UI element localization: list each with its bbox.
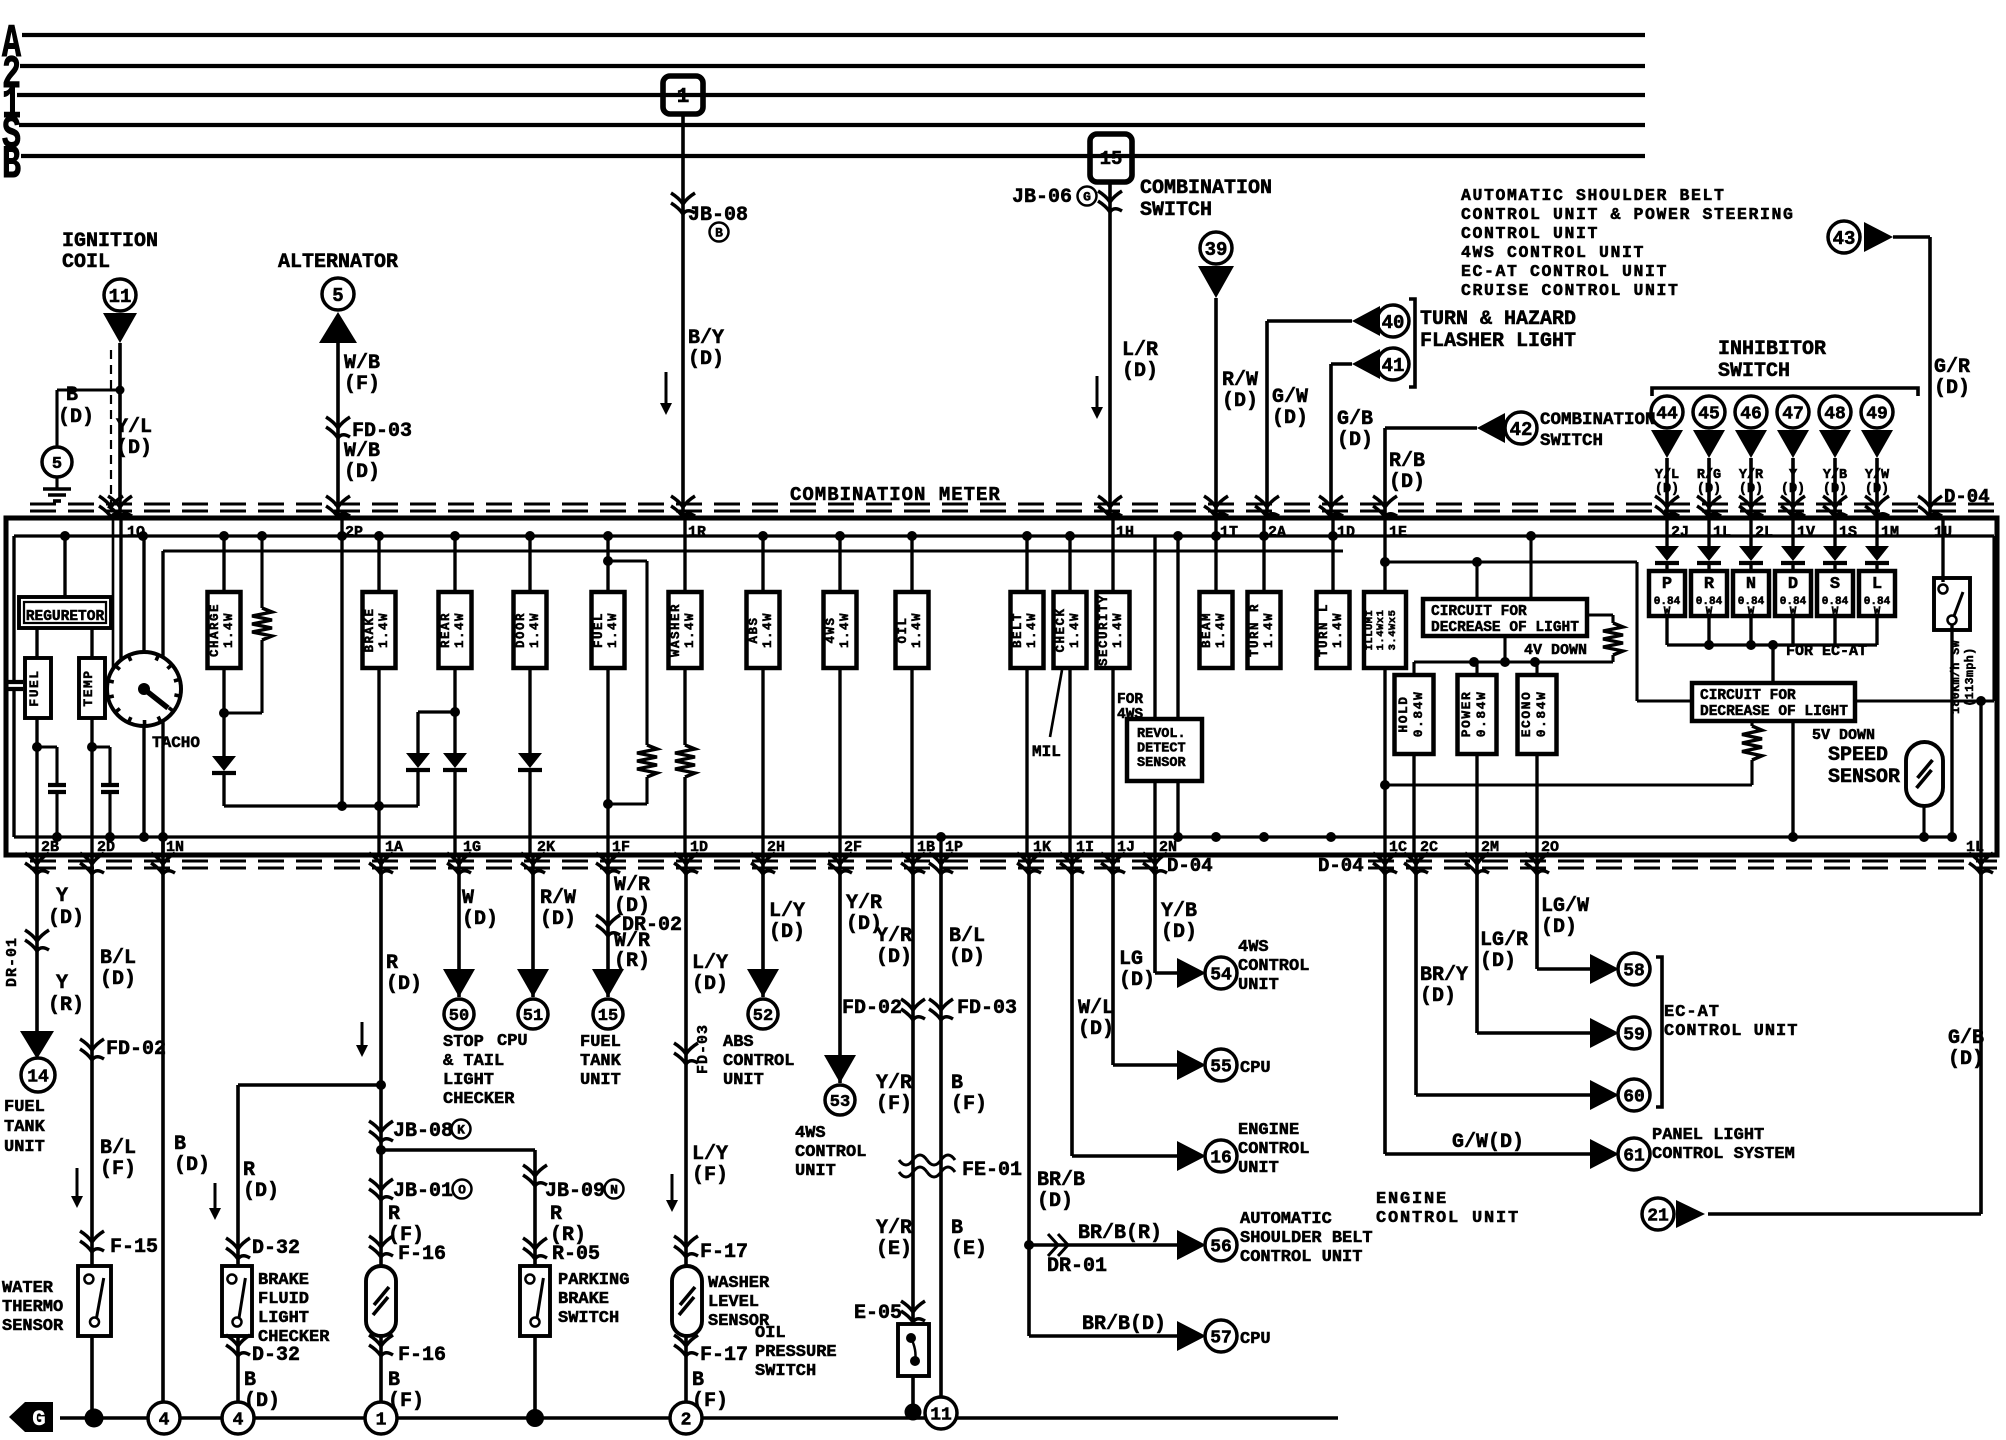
svg-text:1A: 1A: [385, 839, 403, 856]
svg-text:SHOULDER BELT: SHOULDER BELT: [1240, 1229, 1373, 1248]
svg-text:S: S: [1830, 575, 1840, 594]
svg-text:1.4W: 1.4W: [606, 612, 620, 648]
svg-text:UNIT: UNIT: [4, 1138, 45, 1157]
svg-text:16: 16: [1210, 1148, 1232, 1168]
svg-text:1V: 1V: [1797, 524, 1815, 541]
svg-text:HOLD: HOLD: [1396, 695, 1411, 732]
svg-text:1G: 1G: [463, 839, 481, 856]
svg-text:1.4W: 1.4W: [910, 612, 924, 648]
svg-text:45: 45: [1698, 404, 1720, 424]
svg-text:2C: 2C: [1420, 839, 1438, 856]
svg-text:D-04: D-04: [1944, 486, 1990, 508]
svg-text:SENSOR: SENSOR: [1828, 766, 1900, 789]
svg-text:(D): (D): [1272, 407, 1308, 430]
svg-text:(D): (D): [174, 1154, 210, 1177]
svg-text:1P: 1P: [945, 839, 963, 856]
svg-text:Y/L: Y/L: [116, 416, 152, 439]
svg-text:Y: Y: [56, 885, 68, 908]
svg-text:L: L: [1872, 575, 1882, 594]
svg-text:B: B: [951, 1217, 963, 1240]
svg-text:TANK: TANK: [580, 1052, 622, 1071]
svg-text:4V DOWN: 4V DOWN: [1524, 642, 1587, 659]
svg-text:Y/R: Y/R: [846, 892, 882, 915]
svg-text:ENGINE: ENGINE: [1376, 1190, 1448, 1209]
svg-text:Y: Y: [1789, 468, 1798, 483]
svg-text:4WS: 4WS: [1238, 938, 1269, 957]
svg-text:F-17: F-17: [700, 1241, 748, 1264]
svg-text:D-32: D-32: [252, 1237, 300, 1260]
svg-text:(D): (D): [243, 1180, 279, 1203]
svg-text:REVOL.: REVOL.: [1137, 727, 1186, 742]
svg-text:1.4W: 1.4W: [1214, 612, 1228, 648]
svg-text:SECURITY: SECURITY: [1097, 594, 1111, 666]
svg-text:B/L: B/L: [949, 925, 985, 948]
svg-text:(D): (D): [1781, 482, 1805, 497]
svg-text:FUEL: FUEL: [4, 1098, 45, 1117]
svg-text:G: G: [1083, 190, 1091, 205]
svg-text:B: B: [2, 139, 21, 191]
svg-text:2N: 2N: [1159, 839, 1177, 856]
svg-text:(D): (D): [116, 437, 152, 460]
svg-text:R/G: R/G: [1697, 468, 1721, 483]
svg-text:O: O: [458, 1183, 466, 1198]
svg-text:W: W: [462, 887, 474, 910]
svg-text:BEAM: BEAM: [1200, 612, 1214, 648]
svg-text:Y: Y: [56, 972, 68, 995]
svg-text:R: R: [388, 1203, 400, 1226]
svg-text:BRAKE: BRAKE: [558, 1290, 609, 1309]
svg-text:CIRCUIT FOR: CIRCUIT FOR: [1700, 688, 1796, 704]
svg-text:D-04: D-04: [1167, 855, 1213, 877]
svg-text:ECONO: ECONO: [1519, 691, 1534, 738]
svg-text:1.4W: 1.4W: [1331, 612, 1345, 648]
svg-text:(F): (F): [100, 1158, 136, 1181]
svg-text:47: 47: [1782, 404, 1804, 424]
svg-text:4WS: 4WS: [824, 616, 838, 643]
svg-text:G/B: G/B: [1337, 408, 1373, 431]
svg-text:SWITCH: SWITCH: [558, 1309, 619, 1328]
svg-text:1.4W: 1.4W: [761, 612, 775, 648]
svg-text:(D): (D): [462, 908, 498, 931]
svg-text:(D): (D): [1122, 360, 1158, 383]
svg-text:1.4W: 1.4W: [453, 612, 467, 648]
svg-text:SENSOR: SENSOR: [2, 1317, 64, 1336]
svg-text:R-05: R-05: [552, 1243, 600, 1266]
svg-text:TURN & HAZARD: TURN & HAZARD: [1420, 308, 1576, 331]
svg-text:F-16: F-16: [398, 1344, 446, 1367]
svg-text:1T: 1T: [1220, 524, 1238, 541]
svg-text:WATER: WATER: [2, 1279, 54, 1298]
svg-text:2D: 2D: [97, 839, 115, 856]
svg-text:(D): (D): [386, 973, 422, 996]
svg-text:K: K: [457, 1123, 465, 1138]
svg-text:51: 51: [523, 1007, 543, 1026]
svg-text:(D): (D): [1161, 921, 1197, 944]
svg-text:TURN L: TURN L: [1317, 603, 1331, 657]
svg-text:CONTROL UNIT: CONTROL UNIT: [1664, 1022, 1798, 1041]
svg-text:UNIT: UNIT: [795, 1162, 836, 1181]
svg-text:UNIT: UNIT: [1238, 976, 1279, 995]
svg-text:LIGHT: LIGHT: [258, 1309, 309, 1328]
svg-text:(E): (E): [876, 1238, 912, 1261]
svg-text:1D: 1D: [690, 839, 708, 856]
svg-text:(D): (D): [1697, 482, 1721, 497]
svg-text:L/Y: L/Y: [692, 952, 728, 975]
svg-text:R: R: [550, 1203, 562, 1226]
svg-text:(D): (D): [100, 968, 136, 991]
svg-text:& TAIL: & TAIL: [443, 1052, 504, 1071]
svg-text:4: 4: [233, 1410, 244, 1430]
svg-text:1.4W: 1.4W: [683, 612, 697, 648]
svg-text:(D): (D): [692, 973, 728, 996]
svg-text:1.4W: 1.4W: [1111, 612, 1125, 648]
svg-text:E-05: E-05: [854, 1302, 902, 1325]
svg-text:OIL: OIL: [755, 1324, 786, 1343]
svg-text:(D): (D): [688, 348, 724, 371]
svg-text:CPU: CPU: [1240, 1330, 1271, 1349]
svg-text:CONTROL: CONTROL: [723, 1052, 794, 1071]
svg-text:B: B: [388, 1369, 400, 1392]
svg-text:FOR: FOR: [1117, 692, 1143, 708]
svg-text:PANEL LIGHT: PANEL LIGHT: [1652, 1126, 1764, 1145]
svg-text:(113mph): (113mph): [1964, 647, 1977, 706]
svg-text:LG/W: LG/W: [1541, 895, 1589, 918]
svg-text:B/Y: B/Y: [688, 327, 724, 350]
svg-text:B/L: B/L: [100, 1137, 136, 1160]
svg-text:UNIT: UNIT: [1238, 1159, 1279, 1178]
svg-text:REAR: REAR: [439, 612, 453, 648]
svg-text:(D): (D): [1480, 950, 1516, 973]
svg-text:Y/R: Y/R: [1739, 468, 1764, 483]
svg-text:N: N: [610, 1183, 618, 1198]
svg-text:MIL: MIL: [1032, 743, 1061, 761]
svg-text:AUTOMATIC: AUTOMATIC: [1240, 1210, 1332, 1229]
svg-text:Y/R: Y/R: [876, 925, 912, 948]
svg-text:(D): (D): [1948, 1048, 1984, 1071]
svg-text:39: 39: [1205, 239, 1228, 261]
svg-text:W/L: W/L: [1078, 997, 1114, 1020]
svg-text:55: 55: [1210, 1057, 1232, 1077]
svg-text:43: 43: [1833, 228, 1856, 250]
svg-text:(D): (D): [1823, 482, 1847, 497]
svg-text:TACHO: TACHO: [152, 734, 200, 752]
svg-text:(F): (F): [692, 1164, 728, 1187]
svg-text:58: 58: [1623, 961, 1645, 981]
svg-text:2: 2: [681, 1410, 692, 1430]
svg-text:4: 4: [159, 1410, 170, 1430]
svg-text:2P: 2P: [345, 524, 363, 541]
svg-text:41: 41: [1382, 355, 1405, 377]
svg-text:IGNITION: IGNITION: [62, 230, 158, 253]
svg-text:49: 49: [1866, 404, 1888, 424]
svg-text:ALTERNATOR: ALTERNATOR: [278, 251, 398, 274]
svg-text:11: 11: [930, 1405, 952, 1425]
svg-text:R: R: [243, 1159, 255, 1182]
svg-text:JB-08: JB-08: [393, 1120, 453, 1143]
svg-text:14: 14: [27, 1067, 49, 1087]
svg-text:THERMO: THERMO: [2, 1298, 63, 1317]
svg-text:(D): (D): [1655, 482, 1679, 497]
svg-text:DR-01: DR-01: [4, 937, 21, 987]
svg-text:1.4W: 1.4W: [222, 612, 236, 648]
svg-text:(D): (D): [1420, 985, 1456, 1008]
svg-text:(D): (D): [1037, 1190, 1073, 1213]
svg-text:EC-AT CONTROL UNIT: EC-AT CONTROL UNIT: [1461, 262, 1668, 281]
svg-text:(D): (D): [1541, 916, 1577, 939]
svg-text:(D): (D): [876, 946, 912, 969]
svg-text:FE-01: FE-01: [962, 1159, 1022, 1182]
svg-text:WASHER: WASHER: [708, 1274, 770, 1293]
svg-text:FD-02: FD-02: [842, 997, 902, 1020]
svg-text:3.4Wx5: 3.4Wx5: [1387, 610, 1399, 651]
svg-text:SENSOR: SENSOR: [1137, 756, 1187, 771]
svg-text:(D): (D): [1222, 390, 1258, 413]
svg-text:CONTROL UNIT: CONTROL UNIT: [1461, 224, 1599, 243]
svg-text:F-17: F-17: [700, 1344, 748, 1367]
svg-text:1M: 1M: [1881, 524, 1899, 541]
svg-text:LEVEL: LEVEL: [708, 1293, 759, 1312]
svg-text:B: B: [174, 1133, 186, 1156]
svg-text:D-04: D-04: [1318, 855, 1364, 877]
svg-text:PARKING: PARKING: [558, 1271, 629, 1290]
svg-text:ENGINE: ENGINE: [1238, 1121, 1299, 1140]
svg-text:CHARGE: CHARGE: [208, 603, 222, 657]
svg-text:BR/Y: BR/Y: [1420, 964, 1468, 987]
svg-text:61: 61: [1623, 1146, 1645, 1166]
svg-text:EC-AT: EC-AT: [1664, 1003, 1720, 1022]
svg-text:JB-01: JB-01: [393, 1180, 453, 1203]
svg-text:CONTROL: CONTROL: [795, 1143, 866, 1162]
svg-text:JB-06: JB-06: [1012, 186, 1072, 209]
svg-text:15: 15: [598, 1007, 618, 1026]
svg-text:(F): (F): [876, 1093, 912, 1116]
svg-text:1K: 1K: [1033, 839, 1051, 856]
svg-text:21: 21: [1647, 1206, 1669, 1226]
svg-text:Y/B: Y/B: [1161, 900, 1197, 923]
svg-text:COMBINATION: COMBINATION: [1140, 177, 1272, 200]
svg-text:DR-01: DR-01: [1047, 1255, 1107, 1278]
svg-text:Y/B: Y/B: [1823, 468, 1847, 483]
svg-text:UNIT: UNIT: [580, 1071, 621, 1090]
svg-text:1R: 1R: [688, 524, 706, 541]
svg-text:G/W: G/W: [1272, 386, 1308, 409]
svg-text:60: 60: [1623, 1087, 1645, 1107]
svg-text:SWITCH: SWITCH: [1540, 431, 1603, 451]
svg-text:TURN R: TURN R: [1248, 603, 1262, 657]
svg-text:(D): (D): [1865, 482, 1889, 497]
svg-text:BRAKE: BRAKE: [258, 1271, 309, 1290]
svg-text:(D): (D): [344, 461, 380, 484]
svg-text:SWITCH: SWITCH: [755, 1362, 816, 1381]
svg-text:5V DOWN: 5V DOWN: [1812, 727, 1875, 744]
svg-text:1I: 1I: [1076, 839, 1094, 856]
svg-text:R/B: R/B: [1389, 450, 1425, 473]
svg-text:FUEL: FUEL: [27, 669, 42, 706]
svg-text:DOOR: DOOR: [514, 612, 528, 648]
svg-text:(R): (R): [48, 994, 84, 1017]
svg-text:1.4W: 1.4W: [377, 612, 391, 648]
svg-text:D: D: [1788, 575, 1798, 594]
svg-text:CONTROL UNIT & POWER STEERING: CONTROL UNIT & POWER STEERING: [1461, 205, 1795, 224]
svg-text:B: B: [951, 1072, 963, 1095]
svg-text:B: B: [715, 226, 723, 241]
svg-text:DETECT: DETECT: [1137, 742, 1186, 757]
svg-text:1J: 1J: [1117, 839, 1135, 856]
svg-text:POWER: POWER: [1459, 691, 1474, 738]
svg-text:CONTROL UNIT: CONTROL UNIT: [1376, 1209, 1520, 1228]
svg-text:SWITCH: SWITCH: [1140, 199, 1212, 222]
svg-text:B: B: [244, 1369, 256, 1392]
svg-text:P: P: [1662, 575, 1672, 594]
svg-text:REGURETOR: REGURETOR: [26, 609, 105, 625]
svg-text:0.84W: 0.84W: [1534, 691, 1549, 738]
svg-text:G/R: G/R: [1934, 356, 1970, 379]
svg-text:2J: 2J: [1671, 524, 1689, 541]
svg-text:1.4W: 1.4W: [838, 612, 852, 648]
svg-text:5: 5: [332, 285, 343, 307]
svg-text:180Km/h SW: 180Km/h SW: [1950, 640, 1963, 714]
svg-text:56: 56: [1210, 1237, 1232, 1257]
svg-text:2O: 2O: [1541, 839, 1559, 856]
svg-text:52: 52: [753, 1007, 773, 1026]
svg-text:W/R: W/R: [614, 874, 650, 897]
svg-text:5: 5: [52, 455, 62, 474]
svg-text:DECREASE OF LIGHT: DECREASE OF LIGHT: [1700, 704, 1848, 720]
svg-text:N: N: [1746, 575, 1756, 594]
svg-text:FUEL: FUEL: [592, 612, 606, 648]
svg-text:G: G: [32, 1407, 45, 1432]
svg-text:COMBINATION: COMBINATION: [1540, 410, 1656, 430]
svg-text:SPEED: SPEED: [1828, 744, 1888, 767]
svg-text:59: 59: [1623, 1025, 1645, 1045]
svg-text:(D): (D): [540, 908, 576, 931]
svg-text:(D): (D): [58, 406, 94, 429]
svg-text:COIL: COIL: [62, 251, 110, 274]
svg-text:CONTROL: CONTROL: [1238, 957, 1309, 976]
svg-text:OIL: OIL: [896, 616, 910, 643]
svg-text:(D): (D): [48, 907, 84, 930]
svg-text:B/L: B/L: [100, 947, 136, 970]
svg-text:SWITCH: SWITCH: [1718, 360, 1790, 383]
svg-text:R/W: R/W: [1222, 369, 1258, 392]
svg-text:2L: 2L: [1755, 524, 1773, 541]
svg-text:G/B: G/B: [1948, 1027, 1984, 1050]
svg-text:57: 57: [1210, 1328, 1232, 1348]
svg-text:CONTROL UNIT: CONTROL UNIT: [1240, 1248, 1362, 1267]
svg-text:15: 15: [1100, 148, 1123, 170]
svg-text:53: 53: [830, 1093, 850, 1112]
svg-text:AUTOMATIC SHOULDER BELT: AUTOMATIC SHOULDER BELT: [1461, 186, 1726, 205]
svg-text:LG: LG: [1119, 948, 1143, 971]
svg-text:Y/R: Y/R: [876, 1217, 912, 1240]
svg-text:4WS: 4WS: [795, 1124, 826, 1143]
svg-text:B: B: [66, 384, 78, 407]
svg-text:Y/W: Y/W: [1865, 468, 1890, 483]
svg-text:0.84W: 0.84W: [1474, 691, 1489, 738]
svg-text:CONTROL: CONTROL: [1238, 1140, 1309, 1159]
svg-text:11: 11: [109, 286, 132, 308]
svg-text:1: 1: [376, 1410, 387, 1430]
svg-text:46: 46: [1740, 404, 1762, 424]
svg-text:FD-02: FD-02: [106, 1038, 166, 1061]
svg-text:(D): (D): [1739, 482, 1763, 497]
svg-text:1.4W: 1.4W: [1025, 612, 1039, 648]
svg-text:CHECK: CHECK: [1054, 607, 1068, 652]
svg-text:1: 1: [677, 86, 690, 109]
svg-text:BR/B(D): BR/B(D): [1082, 1313, 1166, 1336]
svg-text:TANK: TANK: [4, 1118, 46, 1137]
svg-text:G/W(D): G/W(D): [1452, 1131, 1524, 1154]
svg-text:TEMP: TEMP: [81, 669, 96, 706]
svg-text:F-15: F-15: [110, 1236, 158, 1259]
svg-text:54: 54: [1210, 965, 1232, 985]
svg-text:Y/L: Y/L: [1655, 468, 1679, 483]
svg-text:2H: 2H: [767, 839, 785, 856]
svg-text:COMBINATION METER: COMBINATION METER: [790, 484, 1001, 506]
svg-text:FOR EC-AT: FOR EC-AT: [1786, 643, 1867, 660]
svg-text:BRAKE: BRAKE: [363, 607, 377, 652]
svg-text:R/W: R/W: [540, 887, 576, 910]
svg-text:(D): (D): [1934, 377, 1970, 400]
svg-text:L/Y: L/Y: [692, 1143, 728, 1166]
svg-text:1.4W: 1.4W: [528, 612, 542, 648]
svg-text:R: R: [386, 952, 398, 975]
svg-text:F-16: F-16: [398, 1243, 446, 1266]
svg-text:W/B: W/B: [344, 440, 380, 463]
svg-text:JB-09: JB-09: [545, 1180, 605, 1203]
svg-text:CONTROL SYSTEM: CONTROL SYSTEM: [1652, 1145, 1795, 1164]
svg-text:BELT: BELT: [1011, 612, 1025, 648]
svg-text:R: R: [1704, 575, 1715, 594]
svg-text:(D): (D): [1078, 1018, 1114, 1041]
svg-text:1L: 1L: [1713, 524, 1731, 541]
svg-text:B: B: [692, 1369, 704, 1392]
svg-text:40: 40: [1382, 312, 1405, 334]
svg-text:UNIT: UNIT: [723, 1071, 764, 1090]
svg-text:L/Y: L/Y: [769, 900, 805, 923]
svg-text:Y/R: Y/R: [876, 1072, 912, 1095]
svg-text:CHECKER: CHECKER: [443, 1090, 515, 1109]
svg-text:DECREASE OF LIGHT: DECREASE OF LIGHT: [1431, 620, 1579, 636]
svg-text:44: 44: [1656, 404, 1678, 424]
svg-text:(F): (F): [344, 373, 380, 396]
svg-text:(D): (D): [769, 921, 805, 944]
svg-text:ABS: ABS: [747, 616, 761, 643]
svg-text:LIGHT: LIGHT: [443, 1071, 494, 1090]
svg-text:2A: 2A: [1268, 524, 1286, 541]
svg-text:1.4Wx1: 1.4Wx1: [1375, 610, 1387, 651]
svg-text:D-32: D-32: [252, 1344, 300, 1367]
svg-text:FLUID: FLUID: [258, 1290, 309, 1309]
svg-text:1.4W: 1.4W: [1262, 612, 1276, 648]
svg-text:2M: 2M: [1481, 839, 1499, 856]
svg-text:LG/R: LG/R: [1480, 929, 1528, 952]
svg-text:BR/B: BR/B: [1037, 1169, 1085, 1192]
svg-text:FD-03: FD-03: [957, 997, 1017, 1020]
svg-text:FUEL: FUEL: [580, 1033, 621, 1052]
svg-text:STOP: STOP: [443, 1033, 484, 1052]
svg-text:0.84W: 0.84W: [1411, 691, 1426, 738]
svg-text:(D): (D): [1337, 429, 1373, 452]
svg-text:CPU: CPU: [497, 1032, 528, 1051]
svg-text:CIRCUIT FOR: CIRCUIT FOR: [1431, 604, 1527, 620]
svg-text:FLASHER LIGHT: FLASHER LIGHT: [1420, 330, 1576, 353]
svg-text:(F): (F): [951, 1093, 987, 1116]
svg-text:(E): (E): [951, 1238, 987, 1261]
svg-text:CPU: CPU: [1240, 1059, 1271, 1078]
svg-text:42: 42: [1510, 419, 1533, 441]
svg-text:48: 48: [1824, 404, 1846, 424]
